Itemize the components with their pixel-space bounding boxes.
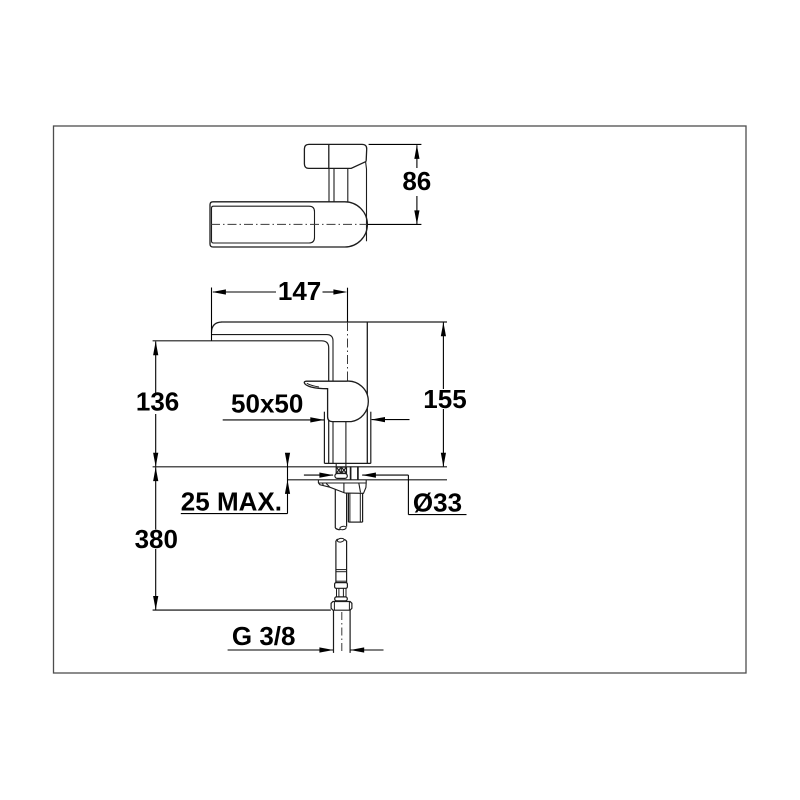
svg-text:50x50: 50x50 [231, 389, 303, 419]
svg-text:136: 136 [136, 387, 179, 417]
svg-text:G 3/8: G 3/8 [232, 621, 296, 651]
svg-text:25 MAX.: 25 MAX. [181, 487, 282, 517]
svg-text:147: 147 [278, 276, 321, 306]
svg-text:155: 155 [423, 384, 466, 414]
svg-text:86: 86 [402, 166, 431, 196]
svg-text:Ø33: Ø33 [413, 487, 462, 517]
svg-text:380: 380 [135, 524, 178, 554]
